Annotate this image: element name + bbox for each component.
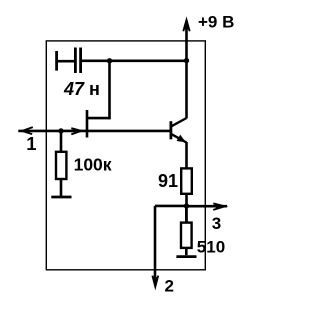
wire: 100k top lead bbox=[60, 131, 63, 152]
wire: R2 bottom to output node bbox=[185, 194, 188, 223]
transistor Q1 emitter arrow bbox=[177, 135, 186, 143]
node: capacitor-to-rail junction bbox=[184, 58, 189, 63]
svg-text:+9 В: +9 В bbox=[198, 13, 234, 32]
terminal bar under 100k bbox=[51, 196, 71, 199]
node: output junction dot bbox=[184, 203, 189, 208]
node: 100k junction dot bbox=[58, 128, 63, 133]
wire: base branch horizontal bbox=[87, 117, 110, 120]
resistor R3 510 bbox=[181, 223, 192, 248]
node bar at input junction bbox=[86, 110, 89, 138]
resistor R2 91 bbox=[181, 168, 192, 193]
wire: base branch vertical drop bbox=[108, 61, 111, 120]
svg-text:47 н: 47 н bbox=[63, 79, 100, 99]
node: base branch junction on capacitor wire bbox=[107, 58, 112, 63]
wire: output node to left corner bbox=[155, 205, 187, 208]
wire: 100k bottom lead bbox=[60, 179, 63, 197]
svg-text:100к: 100к bbox=[74, 155, 112, 175]
capacitor C1 plates bbox=[75, 48, 80, 74]
wire: input to base bbox=[87, 130, 171, 133]
transistor Q1 base bar bbox=[169, 121, 172, 139]
transistor Q1 emitter stroke bbox=[171, 134, 187, 143]
transistor Q1 collector stroke bbox=[171, 118, 187, 127]
capacitor C1 terminal bar bbox=[55, 51, 58, 71]
enclosure box bbox=[46, 41, 205, 270]
wire: down to terminal 2 bbox=[154, 206, 157, 278]
wire: output node to terminal 3 bbox=[187, 205, 228, 208]
power arrow up bbox=[183, 20, 189, 32]
wire: capacitor left lead bbox=[57, 60, 75, 63]
input arrow pointing left bbox=[22, 127, 33, 134]
wire: emitter vertical to R2 bbox=[185, 142, 188, 168]
terminal 3 arrow right bbox=[213, 203, 225, 210]
wire: R3 bottom lead bbox=[185, 248, 188, 255]
svg-text:91: 91 bbox=[158, 171, 178, 191]
svg-text:3: 3 bbox=[212, 214, 221, 233]
svg-text:2: 2 bbox=[165, 277, 174, 296]
terminal bar under R3 bbox=[176, 255, 196, 258]
wire: +9V rail / collector vertical bbox=[185, 22, 188, 119]
terminal 2 arrow down bbox=[152, 276, 158, 287]
svg-text:1: 1 bbox=[26, 133, 36, 154]
wire: output node to R3 bbox=[185, 206, 188, 223]
wire: capacitor to rail bbox=[81, 59, 187, 62]
arrow on input wire pointing right bbox=[71, 128, 81, 134]
svg-text:510: 510 bbox=[197, 238, 225, 257]
wire: input line terminal 1 bbox=[18, 130, 87, 133]
resistor R1 100к bbox=[56, 152, 66, 179]
